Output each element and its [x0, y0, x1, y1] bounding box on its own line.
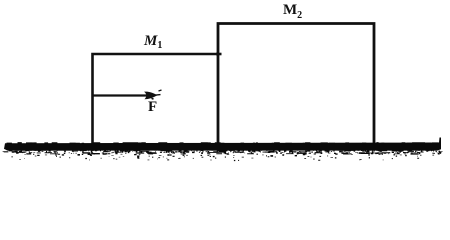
label M1 — [144, 33, 162, 51]
label F — [148, 99, 157, 116]
label M2 — [283, 2, 302, 21]
force arrow F — [93, 90, 162, 99]
ground band — [3, 138, 443, 162]
block M1 outline — [93, 54, 220, 144]
block M2 outline — [216, 24, 374, 145]
